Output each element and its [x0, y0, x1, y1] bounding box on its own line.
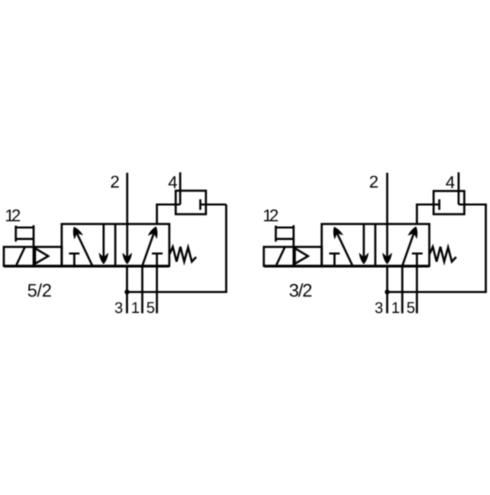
V2 port 1 line — [401, 266, 403, 314]
V1 port 4 riser from body — [157, 205, 180, 225]
V2 right box flow arrow 2-3 — [382, 253, 392, 265]
V2 interface box plug bar — [438, 199, 440, 210]
valve V1 body bottom edge (heavy) — [4, 266, 170, 268]
V1 pilot interface box — [176, 191, 206, 215]
V1 solenoid coil diagonal — [16, 247, 24, 265]
valve V1 body (5/2) — [62, 224, 170, 266]
V2 left box blocked port T — [329, 254, 340, 266]
V2 type label 3/2 — [290, 283, 312, 296]
V2 pilot interface box — [434, 191, 465, 214]
V1 port 3 line — [126, 266, 128, 314]
V2 label port 4 — [446, 176, 455, 188]
V2 junction dot — [385, 290, 390, 295]
V1 label port 4 — [168, 176, 177, 188]
V2 left box flow arrow 1-2 — [337, 232, 353, 266]
V1 interface box plug bar — [200, 199, 226, 210]
V1 label port 1 — [132, 302, 139, 313]
V1 label port 3 — [115, 302, 122, 313]
V1 right box flow arrow 1-4 — [142, 232, 154, 266]
V2 port 3 line — [386, 266, 388, 314]
V2 right box flow arrow 1-4 — [402, 232, 414, 266]
V1 port 12 connector box — [16, 226, 34, 242]
V2 label port 12 — [264, 209, 278, 221]
V1 label port 12 — [6, 209, 20, 221]
valve V2 body (3/2) — [322, 224, 430, 266]
V2 pilot triangle — [295, 248, 308, 264]
V2 port 12 connector box — [276, 226, 294, 242]
V2 return spring — [429, 247, 456, 262]
V1 type label 5/2 — [28, 283, 51, 296]
V1 port 4 line — [179, 172, 181, 204]
V1 label port 5 — [147, 302, 154, 313]
V2 actuator divider / port 12 stem — [293, 225, 295, 266]
valve V2 body bottom edge (heavy) — [264, 266, 430, 268]
V2 label port 5 — [407, 302, 414, 313]
V2 port 5 line — [416, 266, 418, 314]
V1 left box blocked port T — [69, 254, 80, 266]
V1 port 5 line — [156, 266, 158, 314]
V1 right box blocked port T — [152, 254, 163, 266]
V2 port 2 line — [386, 173, 388, 259]
V2 bypass line to port 3 — [387, 205, 486, 293]
V1 pilot/solenoid actuator box — [4, 247, 62, 266]
V1 right box flow arrow 2-3 — [122, 253, 132, 265]
V1 actuator divider / port 12 stem — [33, 225, 35, 266]
V1 label port 2 — [111, 176, 119, 188]
V1 junction dot — [125, 290, 130, 295]
V1 return spring — [169, 247, 196, 262]
V2 label port 1 — [392, 302, 399, 313]
V1 port 2 line — [126, 173, 128, 259]
V2 solenoid coil diagonal — [276, 247, 284, 265]
V1 left box flow arrow 1-2 — [76, 232, 92, 266]
valve V1 position divider — [114, 224, 116, 266]
V1 left box flow arrow 4-5 — [103, 225, 105, 258]
V1 pilot triangle — [35, 248, 48, 264]
V2 port 4 line — [458, 172, 460, 204]
V2 label port 3 — [375, 302, 382, 313]
valve V2 position divider — [374, 224, 376, 266]
V2 left box flow arrow 4-5 — [363, 225, 365, 258]
V2 port 4 riser from body — [417, 205, 439, 225]
V1 port 1 line — [141, 266, 143, 314]
V2 right box blocked port T — [412, 254, 423, 266]
V1 bypass line to port 3 — [127, 205, 226, 293]
V2 label port 2 — [370, 176, 378, 188]
V2 pilot/solenoid actuator box — [264, 247, 322, 266]
